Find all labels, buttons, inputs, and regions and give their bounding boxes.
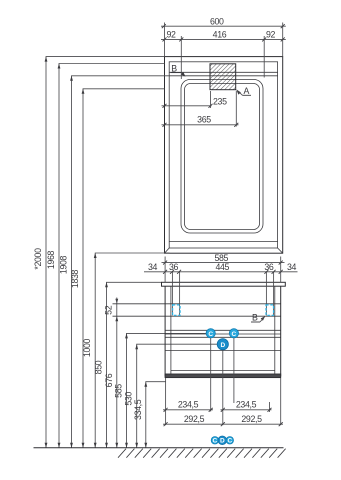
mirror cabinet top shelf line 1	[169, 71, 277, 73]
dim 92-416-92 line	[161, 29, 286, 41]
svg-text:1000: 1000	[82, 338, 92, 357]
dim 365 line	[162, 115, 239, 127]
label B cabinet with leader	[251, 313, 265, 323]
label A top with leader	[236, 86, 251, 96]
dim 292,5 line	[163, 414, 283, 426]
left dim line 1838	[70, 89, 165, 448]
ground hatch	[118, 449, 286, 458]
bottom circle C right	[226, 437, 233, 445]
mirror bottom left bevel	[165, 248, 170, 253]
cabinet bottom band	[165, 374, 281, 378]
svg-text:416: 416	[213, 29, 227, 39]
extension hatch right down	[235, 91, 237, 127]
extension cabinet right to dims	[280, 257, 282, 283]
mirror cabinet outer box	[165, 57, 283, 254]
svg-text:292,5: 292,5	[184, 414, 205, 424]
extension line inner left 416	[180, 36, 182, 79]
mirror cabinet inner offset frame	[169, 62, 277, 248]
leader C right down	[233, 338, 235, 403]
svg-text:334,5: 334,5	[133, 399, 143, 420]
svg-text:234,5: 234,5	[236, 400, 257, 410]
svg-text:B: B	[171, 64, 177, 74]
svg-text:D: D	[220, 342, 225, 349]
leader D down	[222, 350, 224, 425]
circle C right	[229, 329, 238, 338]
svg-text:1838: 1838	[70, 269, 80, 288]
mirror door rounded outer	[181, 80, 263, 234]
svg-text:36: 36	[169, 262, 179, 272]
mirror door bottom edge	[169, 240, 277, 242]
svg-text:C: C	[208, 331, 213, 338]
cabinet front line 330	[165, 329, 281, 331]
cabinet left side inner	[170, 286, 172, 376]
cabinet front line 338	[165, 336, 281, 338]
extension through left bracket b	[179, 272, 181, 315]
cabinet left side outer	[164, 286, 166, 376]
svg-text:34: 34	[148, 262, 158, 272]
svg-text:850: 850	[94, 360, 104, 374]
svg-text:C: C	[232, 331, 237, 338]
left dim line 850	[94, 282, 162, 448]
left dim line 1968	[46, 64, 165, 448]
cabinet front line 350	[165, 350, 281, 352]
mirror cabinet top shelf line 2	[169, 75, 277, 77]
dim 52 vertical	[104, 298, 119, 322]
circle D	[217, 339, 228, 350]
dim 234,5 left	[163, 400, 213, 412]
rail line lower	[113, 315, 281, 317]
leader C left down	[210, 338, 212, 412]
rail line upper	[113, 303, 281, 305]
svg-text:92: 92	[166, 29, 176, 39]
left dim line 676	[104, 316, 118, 448]
svg-text:D: D	[220, 438, 225, 445]
svg-text:676: 676	[104, 373, 114, 387]
svg-text:235: 235	[213, 97, 227, 107]
cabinet right side inner	[274, 286, 276, 376]
left dim line 2000	[33, 57, 165, 448]
circle C left	[206, 329, 215, 338]
left dim line 530	[124, 344, 218, 448]
svg-text:365: 365	[197, 115, 211, 125]
extension cabinet right bottom	[280, 378, 282, 425]
floor line	[34, 447, 284, 449]
svg-text:52: 52	[104, 305, 114, 315]
svg-text:234,5: 234,5	[178, 400, 199, 410]
svg-text:445: 445	[215, 262, 229, 272]
dim 235 line	[162, 97, 228, 108]
right mount bracket cyan	[266, 305, 274, 315]
extension through left bracket a	[171, 272, 173, 315]
svg-text:92: 92	[266, 29, 276, 39]
dim 585 cabinet line	[162, 253, 285, 265]
dim 34-36-445-36-34 line	[144, 262, 298, 274]
extension right 234,5	[269, 402, 271, 412]
cabinet right side outer	[280, 286, 282, 376]
cabinet inner bottom line	[171, 370, 275, 372]
counter top	[162, 282, 286, 286]
dim 234,5 right	[221, 400, 272, 412]
svg-text:1968: 1968	[46, 250, 56, 269]
left dim line 1908	[59, 76, 170, 448]
svg-text:1908: 1908	[59, 255, 69, 274]
extension through right bracket a	[265, 272, 267, 315]
svg-text:600: 600	[210, 16, 224, 26]
extension line mirror top-left	[164, 23, 166, 57]
dim 600 line	[161, 16, 286, 28]
svg-text:B: B	[252, 313, 258, 323]
extension cabinet left bottom	[165, 378, 167, 425]
bottom circle D	[218, 436, 227, 445]
extension line mirror top-right	[282, 23, 284, 57]
left dim line 1000	[82, 253, 169, 448]
extension cabinet left to dims	[164, 257, 166, 283]
svg-text:*2000: *2000	[33, 248, 43, 270]
svg-text:C: C	[213, 438, 218, 445]
left dim line 585	[114, 333, 207, 447]
svg-text:34: 34	[287, 262, 297, 272]
left mount bracket cyan	[173, 305, 181, 315]
extension line inner right 416	[263, 36, 265, 78]
svg-text:585: 585	[114, 384, 124, 398]
svg-text:A: A	[244, 86, 250, 96]
bottom circle C left	[211, 437, 218, 445]
hatched wall-mount zone	[210, 64, 236, 90]
left dim line 334,5	[133, 382, 166, 448]
extension through right bracket b	[273, 272, 275, 315]
mirror bottom right bevel	[278, 248, 283, 253]
label B top	[171, 64, 186, 77]
svg-text:292,5: 292,5	[241, 414, 262, 424]
svg-text:C: C	[227, 438, 232, 445]
mirror door rounded inner	[185, 84, 260, 230]
cabinet front line 334	[165, 333, 281, 335]
svg-text:36: 36	[264, 262, 274, 272]
extension hatch left down	[210, 91, 212, 108]
